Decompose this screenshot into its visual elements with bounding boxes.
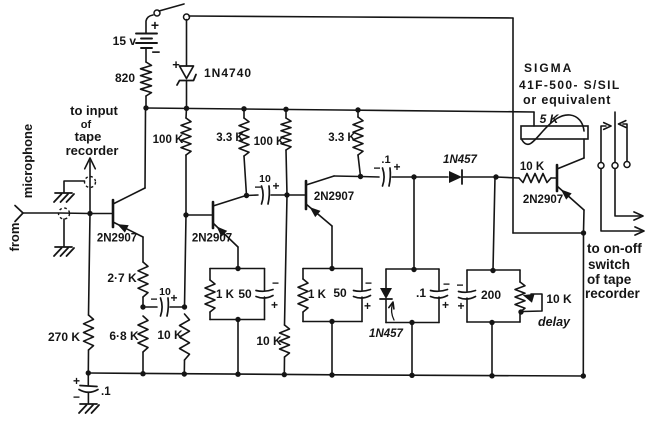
svg-text:SIGMA: SIGMA bbox=[524, 61, 573, 75]
block2 bottom wire bbox=[303, 321, 362, 323]
junction bus/zener bbox=[184, 106, 189, 111]
junction block4 top bbox=[490, 268, 495, 273]
ground recorder shield bbox=[54, 193, 74, 202]
diode 1N457 series bbox=[449, 170, 462, 184]
shield circle mic cable bbox=[59, 208, 70, 219]
wire right side down to bottom bus bbox=[582, 233, 584, 376]
svg-text:5 K: 5 K bbox=[540, 112, 560, 126]
transistor Q1 2N2907 bbox=[113, 188, 145, 237]
svg-text:−: − bbox=[272, 276, 279, 290]
junction Q3 base node bbox=[284, 192, 289, 197]
junction bus/10K-2 bbox=[282, 372, 287, 377]
svg-text:of tape: of tape bbox=[587, 272, 632, 287]
svg-text:270 K: 270 K bbox=[48, 330, 80, 344]
junction block2 bottom bbox=[329, 319, 334, 324]
junction bus/block3 bbox=[409, 373, 414, 378]
wire node E to R10K bbox=[496, 177, 519, 178]
wire Q3 collector to node C bbox=[334, 175, 360, 178]
svg-text:3.3 K: 3.3 K bbox=[328, 132, 356, 144]
resistor 2.7K bbox=[138, 262, 148, 297]
svg-text:+: + bbox=[170, 291, 177, 305]
resistor 1K first bbox=[205, 269, 215, 320]
svg-text:1 K: 1 K bbox=[308, 289, 327, 301]
zener column wire upper bbox=[186, 20, 188, 67]
contact terminal 3 bbox=[624, 162, 630, 168]
svg-text:−: − bbox=[443, 277, 450, 291]
switch S1 (on-off power) bbox=[154, 4, 190, 20]
svg-text:10 K: 10 K bbox=[546, 292, 572, 306]
svg-text:2N2907: 2N2907 bbox=[314, 191, 354, 203]
capacitor 50uF first bbox=[256, 269, 279, 320]
resistor 820 bbox=[141, 62, 152, 96]
wire battery- to R 820 bbox=[145, 48, 147, 62]
svg-text:to on-off: to on-off bbox=[587, 241, 642, 256]
zener diode 1N4740 bbox=[172, 57, 196, 85]
wire Q3 base bbox=[287, 194, 305, 196]
svg-text:100 K: 100 K bbox=[254, 136, 285, 148]
svg-text:−: − bbox=[73, 390, 80, 404]
potentiometer 10K delay bbox=[515, 270, 525, 322]
wire contact2 to arrow bbox=[615, 169, 643, 221]
wire microphone to node A bbox=[23, 212, 90, 215]
svg-text:1N4740: 1N4740 bbox=[204, 66, 252, 80]
junction bus/block2 bbox=[329, 372, 334, 377]
svg-text:6·8 K: 6·8 K bbox=[109, 329, 139, 343]
contact terminal 1 bbox=[598, 163, 604, 169]
capacitor 50uF second bbox=[354, 269, 373, 322]
junction Q4 emitter/+rail bbox=[581, 230, 586, 235]
svg-text:2·7 K: 2·7 K bbox=[107, 271, 137, 285]
svg-text:recorder: recorder bbox=[585, 286, 641, 301]
junction bus/3.3K-2 bbox=[355, 107, 360, 112]
svg-text:100 K: 100 K bbox=[153, 134, 184, 146]
transistor Q4 2N2907 bbox=[557, 158, 584, 210]
svg-text:41F-500- S/SIL: 41F-500- S/SIL bbox=[519, 78, 621, 92]
svg-text:10 K: 10 K bbox=[520, 161, 545, 173]
svg-text:200: 200 bbox=[481, 288, 501, 302]
resistor 3.3K second bbox=[353, 110, 363, 155]
svg-text:−: − bbox=[152, 44, 161, 61]
svg-text:microphone: microphone bbox=[20, 124, 35, 198]
junction Q2 base node bbox=[183, 212, 188, 217]
microphone input jack Y bbox=[15, 206, 23, 222]
relay armature bbox=[614, 112, 616, 162]
wire Q4 collector to relay bbox=[583, 139, 585, 158]
wire node E down to block4 bbox=[493, 177, 495, 270]
wire block4 to bottom bus bbox=[491, 323, 493, 376]
svg-text:+: + bbox=[364, 299, 371, 313]
wire mic shield to ground bbox=[63, 219, 65, 246]
junction block3 bottom bbox=[409, 320, 414, 325]
block4 bottom wire bbox=[467, 321, 520, 323]
svg-text:15 v: 15 v bbox=[113, 34, 137, 48]
capacitor 200uF bbox=[456, 270, 475, 322]
svg-text:−: − bbox=[254, 180, 261, 194]
junction C1/R10K node bbox=[182, 304, 187, 309]
block4 top wire bbox=[467, 269, 520, 271]
wire 3.3K to node C bbox=[358, 155, 361, 177]
junction bus/block1 bbox=[235, 372, 240, 377]
junction node B bbox=[140, 304, 145, 309]
svg-text:+: + bbox=[393, 160, 400, 174]
svg-text:2N2907: 2N2907 bbox=[523, 194, 563, 206]
wire R2.7K to node B bbox=[142, 297, 144, 307]
wire 100K to Q2 base node bbox=[185, 155, 187, 215]
svg-text:.1: .1 bbox=[381, 154, 390, 166]
wire R6.8K to bottom bus bbox=[142, 352, 144, 374]
svg-text:50: 50 bbox=[333, 286, 347, 300]
wire Q2 base bbox=[186, 214, 212, 216]
wire diode to node E bbox=[463, 176, 496, 178]
junction block4 bottom bbox=[489, 320, 494, 325]
svg-text:−: − bbox=[456, 278, 463, 292]
svg-text:1 K: 1 K bbox=[216, 289, 235, 301]
block1 bottom wire bbox=[210, 319, 265, 321]
wire right drop from top rail bbox=[512, 18, 514, 233]
svg-text:delay: delay bbox=[538, 315, 571, 329]
bottom bus (+ rail) bbox=[88, 373, 583, 376]
wire contact1 to arrow bbox=[601, 169, 644, 236]
wire block2 to bottom bus bbox=[331, 322, 333, 376]
resistor 10K (Q4 base) bbox=[519, 174, 551, 183]
junction Q2 collector node bbox=[244, 193, 249, 198]
svg-text:tape: tape bbox=[75, 129, 102, 144]
resistor 10K (Q3 base) bbox=[280, 325, 290, 357]
wire zener to bus bbox=[186, 81, 188, 109]
svg-text:+: + bbox=[271, 298, 278, 312]
svg-text:−: − bbox=[365, 276, 372, 290]
wire 3.3K to Q2 collector node bbox=[244, 156, 247, 196]
wire top rail bbox=[189, 16, 513, 18]
svg-text:switch: switch bbox=[588, 257, 630, 272]
svg-text:3.3 K: 3.3 K bbox=[216, 132, 244, 144]
wire Q3 base node down bbox=[285, 195, 288, 325]
arrow label pointer bbox=[389, 302, 394, 320]
svg-text:−: − bbox=[373, 161, 380, 175]
wire battery+ to switch bbox=[146, 15, 153, 33]
relay coil SIGMA 5K bbox=[521, 115, 588, 144]
resistor 6.8K bbox=[138, 316, 148, 352]
svg-text:10 K: 10 K bbox=[157, 328, 183, 342]
capacitor 0.1uF shunt bbox=[431, 269, 451, 323]
junction pot wiper bbox=[518, 309, 523, 314]
wire block3 to bottom bus bbox=[411, 323, 413, 376]
junction block1 top bbox=[235, 266, 240, 271]
svg-text:recorder: recorder bbox=[66, 143, 119, 158]
block2 top wire bbox=[303, 268, 362, 270]
junction bus/820 bbox=[143, 105, 148, 110]
svg-text:+: + bbox=[172, 57, 180, 72]
svg-text:+: + bbox=[73, 374, 80, 388]
svg-text:.1: .1 bbox=[101, 386, 111, 398]
block1 top wire bbox=[210, 268, 265, 270]
wire 270K to bottom bus bbox=[87, 350, 89, 373]
svg-text:2N2907: 2N2907 bbox=[97, 233, 137, 245]
wire Q2 emitter to block1 bbox=[237, 247, 239, 268]
svg-text:1N457: 1N457 bbox=[443, 154, 477, 166]
wire node A to Q1 base bbox=[90, 213, 112, 215]
wire R10K Q3 to bottom bus bbox=[283, 357, 285, 375]
pot wiper arrow bbox=[523, 294, 542, 312]
svg-text:1N457: 1N457 bbox=[369, 328, 403, 340]
wire node D down to block3 bbox=[413, 177, 415, 269]
svg-text:10: 10 bbox=[159, 286, 171, 298]
svg-text:−: − bbox=[150, 292, 157, 306]
block3 bottom wire bbox=[386, 322, 439, 324]
svg-text:10 K: 10 K bbox=[256, 334, 282, 348]
junction block2 top bbox=[329, 266, 334, 271]
junction node C bbox=[358, 174, 363, 179]
wire 270K top bbox=[89, 214, 91, 316]
ground mic shield bbox=[54, 247, 74, 256]
junction bus/10K-1 bbox=[182, 371, 187, 376]
arrow to input of tape recorder bbox=[85, 158, 96, 213]
contact terminal 2 bbox=[612, 163, 618, 169]
junction node E bbox=[493, 174, 498, 179]
wire Q4 emitter down bbox=[583, 210, 586, 232]
junction bus/100K-2 bbox=[283, 107, 288, 112]
contact arrow left bbox=[601, 123, 611, 162]
junction bus/6.8K bbox=[140, 371, 145, 376]
shield circle recorder cable bbox=[85, 177, 96, 188]
wire +rail horizontal bbox=[513, 232, 584, 234]
svg-text:to input: to input bbox=[70, 103, 118, 118]
svg-text:+: + bbox=[151, 17, 159, 33]
resistor 100K second bbox=[281, 109, 291, 150]
resistor 1K second bbox=[298, 269, 308, 322]
svg-text:2N2907: 2N2907 bbox=[192, 233, 232, 245]
wire recorder shield to ground bbox=[64, 181, 85, 192]
junction bus/270K bbox=[86, 370, 91, 375]
svg-text:or equivalent: or equivalent bbox=[523, 93, 611, 107]
wire 100K to Q3 base node bbox=[286, 150, 287, 195]
ground input bypass bbox=[79, 404, 99, 413]
main bus (regulated rail) bbox=[146, 108, 534, 112]
capacitor 10uF C2 bbox=[247, 173, 288, 204]
contact arrow right bbox=[619, 121, 628, 161]
junction block3 top bbox=[411, 267, 416, 272]
capacitor 0.1uF C3 bbox=[361, 154, 415, 186]
junction bus/3.3K-1 bbox=[241, 106, 246, 111]
junction bus/block4 bbox=[489, 373, 494, 378]
wire Q1 emitter down bbox=[142, 237, 144, 262]
wire R10K to bottom bus bbox=[183, 360, 185, 374]
wire node D to diode bbox=[414, 176, 448, 178]
resistor 3.3K first bbox=[239, 109, 249, 156]
diode 1N457 shunt bbox=[380, 269, 392, 323]
block3 top wire bbox=[386, 268, 439, 270]
resistor 100K first bbox=[181, 108, 191, 155]
wire R10K to Q4 base bbox=[551, 177, 556, 179]
svg-text:+: + bbox=[457, 299, 464, 313]
svg-text:+: + bbox=[442, 298, 449, 312]
svg-text:+: + bbox=[272, 179, 279, 193]
wire Q1 collector to bus bbox=[144, 110, 147, 188]
junction bus/right rail bbox=[581, 373, 586, 378]
junction node A bbox=[87, 211, 92, 216]
junction block1 bottom bbox=[235, 317, 240, 322]
wire R820 to bus bbox=[145, 96, 147, 108]
resistor 270K bbox=[84, 315, 94, 350]
wire Q3 emitter to block2 bbox=[331, 226, 333, 268]
svg-text:820: 820 bbox=[115, 71, 135, 85]
wire Q2 base node down to C1 bbox=[185, 215, 187, 307]
svg-text:from: from bbox=[7, 223, 22, 252]
resistor 10K (Q2 base) bbox=[180, 314, 190, 360]
svg-text:.1: .1 bbox=[416, 286, 426, 300]
junction node D bbox=[411, 174, 416, 179]
transistor Q2 2N2907 bbox=[213, 196, 246, 248]
wire block1 to bottom bus bbox=[237, 320, 239, 375]
capacitor 0.1uF input bypass bbox=[73, 373, 111, 404]
capacitor 10uF C1 bbox=[146, 286, 184, 316]
battery B1 15v bbox=[113, 17, 161, 61]
wire bus to relay coil bbox=[533, 112, 535, 126]
transistor Q3 2N2907 bbox=[306, 176, 334, 226]
svg-text:50: 50 bbox=[238, 287, 252, 301]
